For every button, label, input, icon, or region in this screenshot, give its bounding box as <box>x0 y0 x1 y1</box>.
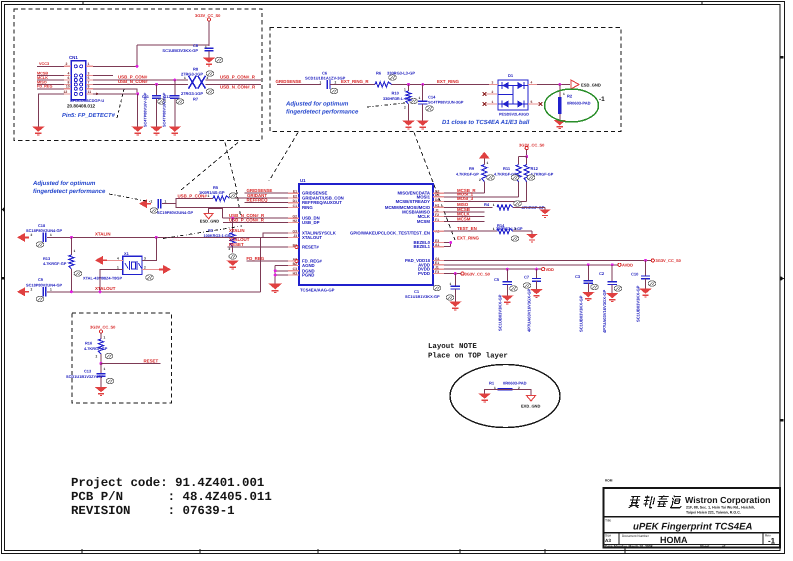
net MCLK row6 <box>433 211 484 216</box>
svg-text:Layout NOTE: Layout NOTE <box>428 343 477 351</box>
svg-text:MCSM: MCSM <box>457 216 471 221</box>
company name <box>685 495 770 515</box>
net XTALIN wire <box>47 228 299 238</box>
size / document number / rev <box>605 534 776 546</box>
svg-text:SCD1U1B1A1ZV-3GP: SCD1U1B1A1ZV-3GP <box>305 76 346 81</box>
note Pin5: FP_DETECT# <box>62 112 116 119</box>
junction C14 <box>421 83 424 86</box>
svg-text:Pin5: FP_DETECT#: Pin5: FP_DETECT# <box>62 112 116 119</box>
svg-text:R2: R2 <box>567 94 573 99</box>
svg-text:2: 2 <box>31 288 33 292</box>
note D1 close to TCS4EA A1/E3 ball <box>442 119 530 126</box>
svg-text:C9: C9 <box>38 277 44 282</box>
net USB_N_CON#_R wire <box>223 213 300 218</box>
ground <box>268 284 282 293</box>
wire pin12 to ground <box>38 90 71 127</box>
net USB_P_CON#_R wire <box>223 218 299 223</box>
resistor R12 <box>524 165 554 182</box>
svg-text:REFFREQ: REFFREQ <box>247 198 269 203</box>
U1 pin stubs <box>288 193 444 275</box>
junction USB_N / R3 <box>231 217 234 220</box>
svg-text:R7: R7 <box>193 96 199 101</box>
capacitor C5 <box>494 269 517 331</box>
ground <box>478 394 491 402</box>
capacitor C6 <box>305 71 346 94</box>
svg-text:1: 1 <box>487 161 489 165</box>
svg-text:1: 1 <box>104 336 106 340</box>
svg-text:X1: X1 <box>124 251 130 256</box>
junction USB_P / C12 <box>173 79 176 82</box>
svg-text:TCS4EA/AAG-GP: TCS4EA/AAG-GP <box>300 288 335 293</box>
svg-text:20.80408.012: 20.80408.012 <box>67 104 96 109</box>
svg-text:C18: C18 <box>38 223 46 228</box>
svg-text:0R0603-PAD: 0R0603-PAD <box>503 380 527 385</box>
net EXT_RING_R <box>330 79 375 84</box>
svg-text:1: 1 <box>104 367 106 371</box>
connector CN1 <box>69 55 86 100</box>
svg-text:1: 1 <box>88 62 90 66</box>
capacitor C9 <box>17 277 63 301</box>
resistor R1 0R0603-PAD <box>485 380 531 395</box>
svg-text:Date:: Date: <box>605 545 613 549</box>
X1 pin4 arrow <box>95 256 123 265</box>
svg-text:Size: Size <box>605 534 611 538</box>
svg-text:5: 5 <box>88 76 90 80</box>
svg-text:R4: R4 <box>484 202 490 207</box>
svg-text:C3: C3 <box>575 274 581 279</box>
svg-text:-1: -1 <box>768 537 776 546</box>
note adjusted for optimum fingerdetect performance <box>285 101 359 116</box>
ground <box>32 127 45 135</box>
svg-text:AVDD: AVDD <box>622 263 633 268</box>
svg-text:R12: R12 <box>531 166 539 171</box>
net PAD_VDD18 rail to 3G3V <box>433 258 682 263</box>
ground <box>582 292 595 300</box>
svg-text:1: 1 <box>493 227 495 231</box>
svg-text:SC1UB03V3KX-GP: SC1UB03V3KX-GP <box>498 294 503 331</box>
svg-text:MISO: MISO <box>37 80 47 84</box>
ground <box>150 127 163 135</box>
svg-text:Adjusted for optimum: Adjusted for optimum <box>32 180 96 187</box>
svg-text:ESD_GND: ESD_GND <box>200 218 219 223</box>
junction pullup rail <box>519 155 529 165</box>
svg-text:GPIO/WAKEUPCLOCK_TEST/TEST_EN: GPIO/WAKEUPCLOCK_TEST/TEST_EN <box>350 231 430 236</box>
net RING wire <box>162 204 299 208</box>
resistor R6 <box>375 71 415 88</box>
svg-text:R16: R16 <box>85 341 93 346</box>
svg-text:SFOCON5CDGP-U: SFOCON5CDGP-U <box>70 98 104 103</box>
ground <box>402 121 415 129</box>
svg-text:C7: C7 <box>524 274 530 279</box>
svg-text:C2: C2 <box>599 271 605 276</box>
junction C10 <box>644 259 647 262</box>
wire pin1 row <box>86 45 137 66</box>
svg-text:RESET: RESET <box>144 358 159 363</box>
junction DGND <box>274 269 277 272</box>
svg-text:R1: R1 <box>489 380 495 385</box>
leader line to USB junction <box>225 143 241 217</box>
capacitor C14 <box>418 85 464 121</box>
resistor R11 <box>494 165 521 182</box>
svg-text:EXT_RING_R: EXT_RING_R <box>341 79 369 84</box>
title <box>605 519 752 533</box>
svg-text:RESET: RESET <box>229 242 244 247</box>
ground <box>554 120 567 128</box>
svg-text:D1 close to TCS4EA A1/E3 ball: D1 close to TCS4EA A1/E3 ball <box>442 119 530 126</box>
svg-text:1: 1 <box>419 96 421 100</box>
svg-text:A3: A3 <box>605 538 611 543</box>
net XTALOUT wire <box>47 237 299 292</box>
svg-text:0R0603-PAD: 0R0603-PAD <box>567 101 591 106</box>
net PVDD rail to 3G3V <box>433 271 491 276</box>
svg-text:11: 11 <box>88 90 92 94</box>
svg-text:ESD_GND: ESD_GND <box>581 82 601 87</box>
ground <box>416 121 429 129</box>
svg-text:C5: C5 <box>494 277 500 282</box>
svg-text:PGND: PGND <box>302 273 314 278</box>
ground <box>449 302 462 310</box>
ground <box>526 234 537 242</box>
ground <box>501 296 514 304</box>
pin numbers choke <box>184 76 209 80</box>
svg-text:1: 1 <box>492 100 494 104</box>
net AVDD rail <box>433 263 633 268</box>
svg-text:MCLK: MCLK <box>37 76 48 80</box>
svg-text:PESD5V2L4UGD: PESD5V2L4UGD <box>499 113 529 117</box>
svg-text:1: 1 <box>493 203 495 207</box>
svg-text:FD_REG: FD_REG <box>37 85 52 89</box>
svg-text:2: 2 <box>404 106 406 110</box>
svg-text:MCSM: MCSM <box>417 219 431 224</box>
resistor R5 <box>178 185 237 201</box>
junction X1 top <box>155 236 158 239</box>
junction EXT_RING <box>449 241 452 244</box>
svg-text:R6: R6 <box>376 71 382 76</box>
svg-text:SC1UB03V3KX-GP: SC1UB03V3KX-GP <box>162 48 198 53</box>
emphasis ellipse <box>545 89 599 122</box>
svg-text:3: 3 <box>88 72 90 76</box>
net VCC3 <box>37 62 71 66</box>
svg-text:RESET#: RESET# <box>302 245 319 250</box>
junction X1 bottom <box>99 290 102 293</box>
X1 pin3 wire to XTALIN <box>142 237 156 260</box>
power arrow <box>479 152 489 159</box>
svg-text:1: 1 <box>165 199 167 203</box>
capacitor C11 <box>142 84 165 127</box>
choke R8 (27R) top <box>181 67 214 89</box>
junction C1 <box>454 272 457 275</box>
junction RESET <box>100 362 103 365</box>
svg-text:4.7KRGF-GP: 4.7KRGF-GP <box>84 346 108 351</box>
leader to C19 <box>109 194 152 202</box>
svg-text:Taipei Hsien 221, Taiwan, R.O.: Taipei Hsien 221, Taiwan, R.O.C. <box>686 511 741 515</box>
svg-text:2: 2 <box>31 233 33 237</box>
svg-text:2: 2 <box>151 199 153 203</box>
ground <box>203 57 223 66</box>
net GRIDANT wire <box>233 193 299 198</box>
CN1 part code 20.80408.012 <box>67 104 96 109</box>
ground <box>530 289 543 297</box>
svg-text:USB_N_CON#: USB_N_CON# <box>118 79 148 84</box>
svg-text:XTALOUT: XTALOUT <box>302 235 322 240</box>
svg-text:SC1UB03V3KX-GP: SC1UB03V3KX-GP <box>579 295 584 332</box>
svg-text:1: 1 <box>50 288 52 292</box>
svg-text:10: 10 <box>66 85 70 89</box>
svg-text:D1: D1 <box>508 73 514 78</box>
pin3 stub <box>86 72 113 76</box>
svg-text:3G3V_CC_S0: 3G3V_CC_S0 <box>519 142 545 147</box>
svg-text:SC1U1B1V3KX-GP: SC1U1B1V3KX-GP <box>405 294 440 299</box>
svg-text:21F, 88, Sec. 1, Hsin Tai Wu R: 21F, 88, Sec. 1, Hsin Tai Wu Rd., Hsichi… <box>686 506 755 510</box>
svg-text:XTALIN: XTALIN <box>229 228 245 233</box>
detail box: sensor ring ESD section <box>270 28 621 132</box>
capacitor C7 <box>523 269 541 332</box>
diode array D1 PESD5V2L4UGD <box>492 73 533 117</box>
svg-text:CN1: CN1 <box>69 55 78 60</box>
net USB_N_CON# <box>86 79 188 84</box>
net MCSB row5 <box>433 207 484 212</box>
D1 pin stubs <box>489 84 537 86</box>
junction R13 bottom <box>70 290 73 293</box>
net USB_P_CON#_R <box>206 75 261 80</box>
net REFFREQ wire <box>245 198 300 203</box>
svg-text:PVDD: PVDD <box>418 271 430 276</box>
U1 left pin names <box>292 190 343 278</box>
svg-text:R11: R11 <box>503 166 511 171</box>
svg-text:REVISION : 07639-1: REVISION : 07639-1 <box>71 504 235 518</box>
svg-text:1: 1 <box>74 249 76 253</box>
resistor R10 <box>383 85 417 121</box>
wire pin11 to ground <box>86 90 138 94</box>
net EXT_RING <box>437 79 460 84</box>
net FD_REG <box>37 85 71 89</box>
net MCSB <box>37 72 71 76</box>
svg-text:2: 2 <box>515 227 517 231</box>
resistor R3 <box>204 218 237 259</box>
U1 right pin names <box>350 190 440 277</box>
svg-text:USB_P_CON#: USB_P_CON# <box>178 193 208 198</box>
svg-text:R9: R9 <box>469 166 475 171</box>
svg-text:5: 5 <box>531 100 533 104</box>
power net 3G3V_CC_S0 <box>195 13 221 21</box>
ground <box>226 261 239 269</box>
choke R7 (27R) bottom <box>181 76 214 102</box>
leader to R10 <box>367 103 405 107</box>
wire pin9 <box>86 85 137 96</box>
net MCSM row7 <box>433 216 484 221</box>
svg-text:Title: Title <box>605 519 611 523</box>
ground <box>131 127 144 135</box>
svg-text:4: 4 <box>68 72 70 76</box>
svg-text:3G3V_CC_S0: 3G3V_CC_S0 <box>465 271 491 276</box>
net row3 <box>433 182 527 202</box>
svg-text:ROM: ROM <box>605 479 613 483</box>
net GRIDSENSE wire <box>245 188 300 193</box>
resistor R13 <box>43 237 82 291</box>
junction pin11 <box>136 92 139 126</box>
svg-text:Document Number: Document Number <box>622 534 650 538</box>
svg-text:XTALIN: XTALIN <box>95 232 111 237</box>
svg-text:R3: R3 <box>208 228 214 233</box>
svg-text:EXT_RING: EXT_RING <box>437 79 460 84</box>
note Layout NOTE <box>428 343 508 361</box>
svg-text:3G3V_CC_S0: 3G3V_CC_S0 <box>656 258 682 263</box>
net USB_N_CON#_R <box>206 84 261 89</box>
leader to EXT_RING <box>414 133 455 241</box>
svg-text:XTALOUT: XTALOUT <box>95 286 116 291</box>
svg-text:R10: R10 <box>392 91 400 96</box>
project code text block <box>71 476 272 518</box>
ground <box>169 127 182 135</box>
capacitor C2 <box>599 265 622 333</box>
svg-text:2: 2 <box>335 80 337 84</box>
net MISO row1 + R9 <box>433 182 484 194</box>
junction C3 <box>587 263 590 266</box>
svg-text:U1: U1 <box>300 178 306 183</box>
svg-text:3G3V_CC_S0: 3G3V_CC_S0 <box>90 325 116 330</box>
crystal X1 <box>83 251 153 280</box>
svg-text:1: 1 <box>50 233 52 237</box>
capacitor C18 <box>17 223 63 247</box>
svg-text:1: 1 <box>208 194 210 198</box>
svg-text:MOSI_3: MOSI_3 <box>457 196 474 201</box>
svg-text:3: 3 <box>492 80 494 84</box>
capacitor C3 <box>575 265 598 332</box>
net MISO row4 + R4 <box>433 201 545 210</box>
ground <box>639 289 652 297</box>
IC U1 TCS4EA <box>299 178 433 293</box>
svg-text:XTAL-43M98Z4-T8GP: XTAL-43M98Z4-T8GP <box>83 275 122 280</box>
svg-text:SC19P80V2UN4-GP: SC19P80V2UN4-GP <box>157 210 194 215</box>
wire 3G3V to C8 <box>137 21 209 46</box>
svg-text:2: 2 <box>479 178 481 182</box>
svg-text:BEZEL1: BEZEL1 <box>414 244 431 249</box>
CN1 pin stubs <box>64 66 93 94</box>
svg-text:1: 1 <box>563 92 565 96</box>
power net 3G3V_CC_S0 <box>519 142 545 156</box>
capacitor C12 <box>163 80 184 127</box>
resistor R14 <box>496 223 532 241</box>
svg-text:Place on TOP layer: Place on TOP layer <box>428 352 508 361</box>
net FD_REG wire <box>246 256 298 263</box>
junction C2 <box>611 263 614 266</box>
svg-text:PCB P/N : 48.4Z405.011: PCB P/N : 48.4Z405.011 <box>71 490 272 504</box>
X1 pin1 wire to XTALOUT <box>100 269 123 291</box>
power net 3G3V_CC_S0 <box>90 325 116 339</box>
capacitor C1 <box>405 274 460 302</box>
svg-text:2: 2 <box>66 62 68 66</box>
open ground EXD_GND <box>521 396 540 409</box>
detail box: fingerprint connector section <box>14 9 262 141</box>
svg-text:1: 1 <box>205 45 207 49</box>
leader to GRIDSENSE <box>269 133 298 182</box>
svg-text:SC1UB03V3KX-GP: SC1UB03V3KX-GP <box>636 285 641 322</box>
detail box: reset pullup <box>72 313 172 403</box>
junction R2 <box>558 83 561 86</box>
capacitor C8 <box>162 43 213 58</box>
junction R10 <box>407 83 410 86</box>
svg-text:SC4TP88V16V-3GP: SC4TP88V16V-3GP <box>144 92 148 127</box>
svg-text:AGND: AGND <box>302 263 315 268</box>
svg-text:1: 1 <box>450 282 452 286</box>
ground <box>606 293 619 301</box>
svg-text:3G3V_CC_S0: 3G3V_CC_S0 <box>195 13 221 18</box>
svg-text:2: 2 <box>207 76 209 80</box>
svg-text:7: 7 <box>88 80 90 84</box>
svg-text:MCSB/STREADY: MCSB/STREADY <box>396 199 431 204</box>
svg-text:2: 2 <box>229 247 231 251</box>
layout ellipse <box>450 365 560 428</box>
svg-text:VCC3: VCC3 <box>39 62 49 66</box>
svg-text:2: 2 <box>492 90 494 94</box>
svg-text:C14: C14 <box>428 94 436 99</box>
wire R6 to D1 <box>392 84 498 86</box>
net USB_P_CON# <box>86 75 188 80</box>
net DVDD rail to VDD <box>433 267 554 272</box>
date / sheet row <box>605 545 726 549</box>
junction C7 <box>535 268 538 271</box>
svg-text:Sheet: Sheet <box>700 545 710 549</box>
svg-text:SC4TP88V1UN-3GP: SC4TP88V1UN-3GP <box>428 101 464 105</box>
svg-text:Adjusted for optimum: Adjusted for optimum <box>285 101 349 108</box>
svg-text:-1: -1 <box>599 96 605 103</box>
wire C19 to R5 <box>176 198 213 203</box>
company logo text (stylized) <box>628 496 683 508</box>
ground <box>95 387 108 395</box>
svg-text:VDD: VDD <box>546 267 555 272</box>
svg-text:Wistron Corporation: Wistron Corporation <box>685 495 770 505</box>
net TEST_EN + R14 <box>433 226 497 231</box>
X1 pin2 arrow <box>142 265 171 274</box>
net RESET wire <box>228 242 299 249</box>
net GRIDSENSE <box>276 79 322 84</box>
svg-text:HOMA: HOMA <box>660 535 688 545</box>
resistor R16 <box>84 336 113 364</box>
svg-text:GRIDSENSE: GRIDSENSE <box>276 79 302 84</box>
net MISO <box>37 80 71 84</box>
net MCLK <box>37 76 71 80</box>
leader line to FP detect pin <box>117 89 124 118</box>
off page ESD_GND <box>571 80 601 89</box>
resistor R2 0R0603-PAD <box>558 85 590 121</box>
junction pin1 <box>136 65 139 68</box>
CN1 part number SFOCON5CDGP-U <box>70 98 104 103</box>
svg-text:2: 2 <box>96 355 98 359</box>
svg-text:RING: RING <box>302 205 313 210</box>
svg-text:USB_N_CON#_R: USB_N_CON#_R <box>220 84 256 89</box>
capacitor C10 <box>631 260 656 322</box>
note adjusted for optimum fingerdetect performance <box>32 180 106 195</box>
leader line to R5 <box>181 143 238 191</box>
svg-text:fingerdetect performance: fingerdetect performance <box>286 109 359 116</box>
svg-text:EXT_RING: EXT_RING <box>457 235 480 240</box>
note -1 <box>599 96 605 103</box>
svg-text:EXD_GND: EXD_GND <box>521 404 540 409</box>
svg-text:4.7KRGF-GP: 4.7KRGF-GP <box>43 261 67 266</box>
svg-text:4P7UA03V16V3GX-GP: 4P7UA03V16V3GX-GP <box>527 288 532 332</box>
capacitor C13 <box>66 364 114 388</box>
svg-text:USB_P_CON#_R: USB_P_CON#_R <box>220 75 256 80</box>
leader near XTALIN <box>163 226 242 239</box>
svg-text:USB_DP: USB_DP <box>302 220 320 225</box>
svg-text:8: 8 <box>68 80 70 84</box>
svg-text:6: 6 <box>68 76 70 80</box>
wire D1 to ESD_GND <box>528 84 570 86</box>
svg-text:TEST_EN: TEST_EN <box>457 226 477 231</box>
svg-text:27RG3-1GP: 27RG3-1GP <box>181 91 203 96</box>
title block <box>604 488 781 548</box>
svg-text:fingerdetect performance: fingerdetect performance <box>33 188 106 195</box>
